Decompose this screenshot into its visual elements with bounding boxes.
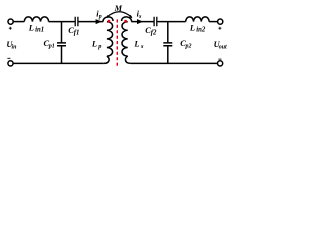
mutual coupling arrow M	[107, 12, 132, 18]
transformer secondary L_s top curl	[122, 17, 132, 22]
svg-text:s: s	[140, 43, 144, 50]
svg-text:f1: f1	[74, 30, 80, 37]
svg-text:L: L	[91, 39, 97, 48]
polarity dot primary	[108, 20, 111, 23]
core dashed line	[116, 19, 118, 66]
svg-text:in2: in2	[196, 27, 206, 34]
plus sign top-left	[9, 27, 12, 30]
node B branch wire down	[167, 22, 169, 43]
svg-text:p: p	[97, 43, 101, 50]
svg-text:p2: p2	[185, 44, 192, 50]
primary bottom lead hook	[104, 56, 109, 63]
terminal U_out- (bottom-right)	[218, 61, 223, 66]
current arrow i_p	[96, 19, 102, 24]
svg-text:p: p	[98, 14, 102, 20]
terminal U_in- (bottom-left)	[8, 61, 13, 66]
wire: L_in2 to top-right terminal	[209, 21, 217, 23]
transformer secondary L_s winding	[122, 22, 128, 56]
wire: C_f2 to L_in2 (through node B)	[157, 21, 185, 23]
terminal U_in+ (top-left)	[8, 19, 13, 24]
wire: top-left terminal to L_in1	[13, 21, 24, 23]
transformer primary L_p winding	[107, 22, 113, 56]
svg-text:out: out	[219, 44, 227, 50]
polarity dot secondary	[124, 20, 127, 23]
svg-text:L: L	[28, 23, 34, 32]
capacitor C_p1 (shunt)	[57, 43, 66, 46]
bottom rail left	[13, 62, 104, 64]
svg-text:M: M	[114, 4, 123, 13]
bottom rail right	[131, 62, 218, 64]
svg-text:L: L	[189, 23, 195, 32]
wire: secondary to C_f2	[131, 21, 153, 23]
svg-text:L: L	[133, 39, 139, 48]
capacitor C_f2 (series)	[154, 17, 157, 27]
secondary bottom lead hook	[125, 56, 130, 63]
minus sign bottom-right	[218, 58, 221, 60]
svg-text:p1: p1	[48, 44, 55, 50]
wire: C_p2 to bottom rail	[167, 46, 169, 63]
inductor L_in2	[186, 17, 209, 22]
inductor L_in1	[24, 17, 48, 22]
plus sign top-right	[218, 27, 221, 30]
capacitor C_f1 (series)	[75, 17, 78, 27]
svg-text:in1: in1	[35, 27, 44, 34]
svg-text:in: in	[12, 44, 18, 50]
wire: C_p1 to bottom rail	[61, 46, 63, 63]
wire: L_in1 to C_f1 (through node A)	[49, 21, 75, 23]
minus sign bottom-left	[7, 57, 10, 59]
node A branch wire down	[61, 22, 63, 43]
capacitor C_p2 (shunt)	[163, 43, 172, 46]
transformer primary L_p top curl	[103, 17, 113, 22]
svg-text:f2: f2	[151, 30, 157, 37]
current arrow i_s	[137, 19, 143, 24]
wire: C_f1 to primary winding	[79, 21, 104, 23]
terminal U_out+ (top-right)	[218, 19, 223, 24]
